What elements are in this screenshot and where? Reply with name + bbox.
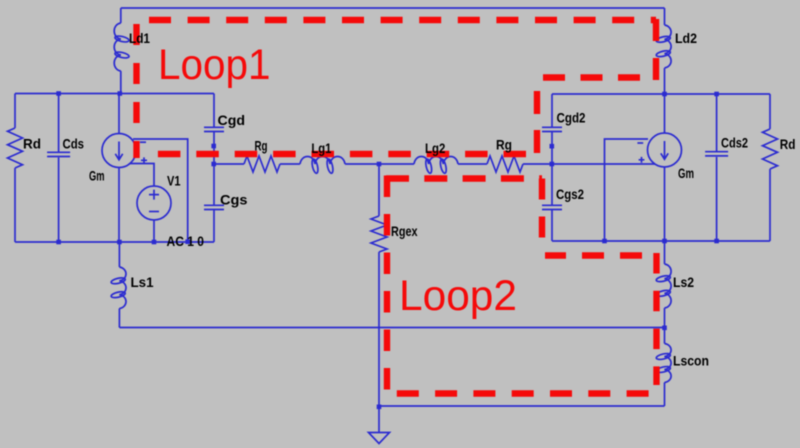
resistor Rg (left) [244, 156, 280, 172]
voltage source V1 [137, 186, 171, 242]
wire gate to Rg (left) [214, 163, 244, 165]
svg-text:Rgex: Rgex [391, 223, 418, 239]
node ground junction [377, 405, 382, 410]
wire Gm plus control to V1 [130, 164, 154, 187]
current source Gm (left) [102, 94, 136, 243]
loop annotation Loop1 right lower edge [534, 91, 540, 154]
loop annotation Loop1 bottom edge [150, 151, 526, 157]
node Ls2-Lscon junction [662, 326, 667, 331]
wire Rg to Lg1 [280, 163, 300, 165]
node rail Ld1 junction [118, 91, 123, 96]
svg-text:Ld2: Ld2 [675, 30, 697, 46]
svg-text:Rg: Rg [255, 138, 268, 154]
inductor Lscon [656, 328, 671, 407]
svg-text:Rd: Rd [780, 136, 796, 152]
loop annotation Loop2 right upper edge [539, 179, 545, 252]
loop annotation Loop2 bottom edge [397, 390, 649, 396]
wire bottom return rail [379, 405, 665, 407]
node Cgd2 bottom junction [550, 144, 555, 149]
svg-text:Ls1: Ls1 [131, 274, 154, 290]
inductor Lg2 [414, 157, 458, 174]
loop annotation Loop1 left edge [133, 24, 139, 158]
wire Gm minus control to ground rail [133, 139, 188, 242]
wire right bottom rail [552, 240, 770, 242]
inductor Ld1 [114, 8, 129, 94]
svg-text:AC 1 0: AC 1 0 [167, 233, 205, 249]
capacitor Cds [47, 94, 70, 243]
node bottom Gm2-Ls2 [662, 239, 667, 244]
node rail Cds top [56, 91, 61, 96]
polarity minus (Gm left) [140, 141, 146, 143]
svg-text:Ls2: Ls2 [673, 274, 694, 290]
resistor Rd (right) [763, 94, 778, 241]
svg-text:Lg1: Lg1 [311, 140, 331, 156]
wire Lg2 to Rg (right) [458, 163, 487, 165]
wire Lg1 to center node [345, 163, 414, 165]
capacitor Cds2 [705, 94, 728, 241]
node bottom Cds2 [714, 239, 719, 244]
svg-text:Lscon: Lscon [673, 353, 709, 369]
node Cgd bottom junction [211, 144, 216, 149]
inductor Ls1 [111, 242, 126, 328]
svg-text:Ld1: Ld1 [129, 30, 150, 46]
loop annotation Loop2 right edge [653, 253, 659, 385]
svg-text:Cgs2: Cgs2 [556, 186, 584, 202]
polarity plus (Gm left) [141, 157, 147, 163]
wire top rail drain-to-drain [121, 7, 665, 9]
resistor Rd (left) [8, 94, 23, 243]
loop annotation Loop1 right upper edge [653, 19, 659, 80]
inductor Lg1 [300, 157, 345, 174]
node bottom Cds [56, 240, 61, 245]
resistor Rg (right) [487, 156, 523, 172]
svg-text:Cgd2: Cgd2 [557, 110, 586, 126]
current source Gm (right) [648, 94, 682, 241]
svg-text:Rd: Rd [23, 136, 41, 152]
node gate junction (left) [211, 162, 216, 167]
node center gate net [377, 162, 382, 167]
svg-text:Cgs: Cgs [220, 192, 248, 208]
wire right top rail [552, 93, 770, 95]
capacitor Cgd2 [542, 94, 562, 164]
node bottom V1 [152, 240, 157, 245]
svg-text:Rg: Rg [496, 137, 512, 153]
svg-text:Loop1: Loop1 [158, 42, 271, 89]
svg-text:Cds: Cds [63, 136, 85, 152]
loop annotation Loop2 left edge [384, 176, 390, 391]
svg-text:Gm: Gm [678, 165, 694, 181]
node bottom Gm1-Ls1 [117, 240, 122, 245]
loop annotation Loop1 notch edge [537, 74, 640, 80]
ground [369, 406, 390, 444]
wire Rg to Gm2 plus [523, 163, 655, 165]
node gate junction (right) [550, 162, 555, 167]
node bottom Gm2 minus [602, 239, 607, 244]
node rail Cds2 top [714, 92, 719, 97]
capacitor Cgs [204, 164, 224, 242]
svg-text:Gm: Gm [89, 168, 105, 184]
svg-text:Lg2: Lg2 [425, 140, 445, 156]
wire left bottom rail [15, 241, 214, 243]
capacitor Cgd [204, 94, 224, 165]
wire Gm2 minus control to ground rail [605, 139, 649, 241]
svg-text:V1: V1 [167, 173, 181, 189]
loop annotation Loop2 notch edge [545, 252, 642, 258]
node bottom Gm1 minus [185, 239, 190, 244]
svg-text:Cds2: Cds2 [721, 135, 748, 151]
capacitor Cgs2 [542, 164, 562, 241]
loop annotation Loop2 top edge [386, 175, 542, 181]
wire source-to-source long rail [119, 327, 664, 329]
polarity minus (Gm2) [637, 142, 643, 144]
inductor Ls2 [656, 241, 671, 328]
inductor Ld2 [656, 8, 671, 94]
resistor Rgex [371, 164, 387, 406]
node rail Ld2 junction [662, 92, 667, 97]
svg-text:Loop2: Loop2 [399, 273, 517, 320]
polarity plus (Gm2) [639, 157, 645, 163]
svg-text:Cgd: Cgd [218, 112, 246, 128]
wire left top rail [15, 93, 214, 95]
loop annotation Loop1 top edge [149, 17, 656, 23]
